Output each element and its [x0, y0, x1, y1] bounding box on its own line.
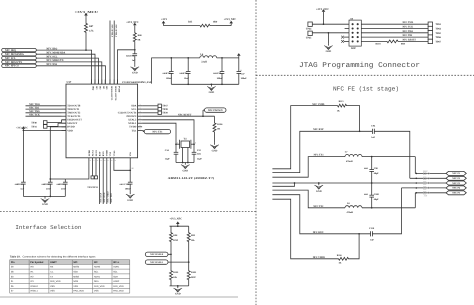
test point TP31 [43, 125, 47, 129]
ground GND (crystal) [184, 163, 186, 165]
capacitor C105 47nF [64, 179, 66, 182]
svg-text:SCL: SCL [113, 271, 118, 274]
wire +3V3 to R35 [164, 25, 195, 27]
svg-text:DVDD: DVDD [67, 126, 75, 129]
wire NFC TDI (JTAG right) [361, 36, 428, 38]
wire NFC TMS (JTAG right) [361, 23, 428, 25]
svg-text:TP28: TP28 [162, 108, 168, 111]
svg-text:NFC IFSEL0: NFC IFSEL0 [150, 253, 164, 256]
power +3V3_NFC (right) [230, 23, 232, 25]
wire L8 to TX2 connector [362, 207, 415, 209]
svg-text:NFC RXP: NFC RXP [313, 128, 324, 131]
svg-text:NFC NSS: NFC NSS [46, 63, 57, 66]
svg-text:VMID: VMID [106, 150, 109, 157]
ground GND (interface selection) [177, 286, 179, 288]
svg-text:ADR0: ADR0 [94, 266, 101, 269]
junction nodes on filter rail [170, 57, 172, 59]
wire NFC TDO (JTAG right) [361, 32, 428, 34]
svg-text:DNP: DNP [191, 276, 196, 279]
svg-text:TP63: TP63 [435, 23, 441, 26]
ground GND (JTAG) [327, 33, 329, 44]
wire NFC TX2 (FE) [272, 190, 345, 208]
wire RXN to connector [372, 188, 401, 234]
resistor R87 4.7k [85, 18, 88, 50]
wire TX1 [142, 130, 144, 131]
net label NFC P5 [446, 191, 466, 195]
svg-text:NFC TX2: NFC TX2 [110, 193, 113, 202]
svg-text:68pF: 68pF [374, 172, 380, 175]
antenna connector rows [402, 173, 448, 194]
wire RXP to connector [374, 131, 410, 178]
svg-text:n.c.: n.c. [50, 271, 54, 274]
ground GND (R106) [214, 143, 216, 145]
wire R115 to RXP node [347, 106, 360, 132]
svg-text:PAD_VDD: PAD_VDD [113, 290, 124, 293]
svg-text:NFC MISO/TX: NFC MISO/TX [5, 61, 22, 64]
svg-text:CLRC66302HN1,151: CLRC66302HN1,151 [122, 81, 152, 84]
svg-text:R116: R116 [337, 254, 343, 257]
svg-text:+3V3_NFC: +3V3_NFC [16, 127, 28, 130]
svg-text:1: 1 [177, 141, 178, 144]
svg-text:NFC TDI: NFC TDI [29, 106, 39, 109]
ground GND (decoupling) [44, 196, 46, 198]
inductor L8 470nH [345, 206, 362, 208]
capacitor C98 68pF [371, 157, 373, 170]
wire L7 to TX node [362, 156, 415, 158]
svg-text:ABM11-143-2T (2M08Z-T7): ABM11-143-2T (2M08Z-T7) [168, 176, 215, 180]
resistor R103 0R0 [385, 40, 400, 43]
test point TP29 [142, 112, 158, 114]
wire filter rail top left [171, 57, 200, 59]
svg-text:PAD_VDD: PAD_VDD [94, 285, 105, 288]
wire NFC TDO [26, 105, 62, 107]
svg-text:+3V3_NFC: +3V3_NFC [224, 18, 237, 21]
wire XTAL2 [142, 120, 194, 153]
svg-text:NFC SPI CS: NFC SPI CS [5, 65, 20, 68]
resistor R115 1K [337, 104, 347, 107]
net label NFC P1 [446, 171, 466, 175]
svg-text:XTAL1: XTAL1 [128, 122, 137, 125]
net label NFC SCL [2, 56, 37, 59]
svg-text:TP66: TP66 [435, 36, 441, 39]
wire R116 to RXN node [351, 234, 359, 259]
svg-text:Interface Selection: Interface Selection [15, 224, 81, 231]
resistor R106 0R [213, 116, 216, 142]
wire NFC IFSEL1 (labelled stub) [113, 21, 115, 85]
svg-text:100nF: 100nF [217, 77, 224, 80]
svg-text:NFC TCK: NFC TCK [29, 114, 40, 117]
svg-text:RX: RX [50, 266, 54, 269]
wire NFC RXN (to FE) [102, 163, 104, 204]
svg-text:47nF: 47nF [61, 188, 67, 191]
svg-text:RXN: RXN [102, 151, 105, 156]
svg-text:NFC P5: NFC P5 [452, 192, 461, 195]
svg-text:IFSEL0/OUT5: IFSEL0/OUT5 [110, 86, 113, 101]
IC U17 CLRC663 body [66, 84, 138, 158]
svg-text:I2C: I2C [94, 261, 98, 264]
svg-text:47nF: 47nF [46, 188, 52, 191]
svg-text:25: 25 [132, 167, 134, 170]
svg-text:NFC TDO: NFC TDO [403, 30, 414, 33]
capacitor C34 12pF [174, 151, 179, 153]
svg-text:3: 3 [140, 106, 141, 109]
svg-text:VSS: VSS [73, 285, 78, 288]
net label NFC TX1 [144, 129, 170, 133]
svg-text:NFC P2: NFC P2 [452, 177, 461, 180]
wire TVDD feed [152, 58, 172, 84]
no-connect marks J10 left pins [344, 36, 349, 38]
inductor L6 22uH [200, 56, 217, 58]
svg-text:6: 6 [140, 117, 141, 120]
svg-text:SDA: SDA [113, 275, 118, 278]
svg-text:TDI/OUT1: TDI/OUT1 [67, 108, 80, 111]
capacitor C130 1nF (RX series) [370, 231, 372, 236]
svg-text:+3V3_NFC: +3V3_NFC [170, 218, 183, 221]
svg-text:DNP: DNP [351, 47, 356, 50]
capacitor C97 100nF [221, 58, 223, 72]
svg-text:R102: R102 [191, 271, 197, 274]
svg-text:PAD_VDD: PAD_VDD [113, 285, 124, 288]
svg-text:NFC IFSEL0: NFC IFSEL0 [110, 25, 113, 38]
wire DVDD [50, 127, 66, 182]
resistor R102 DNP [187, 265, 190, 286]
svg-text:TP65: TP65 [435, 32, 441, 35]
wire NFC MISO/TX [36, 62, 102, 84]
inductor L7 470nH [345, 154, 362, 156]
svg-text:AVDD: AVDD [88, 150, 91, 157]
svg-text:NFC TX1: NFC TX1 [152, 130, 163, 133]
svg-text:VSS: VSS [129, 151, 132, 156]
svg-text:UART: UART [50, 261, 57, 264]
svg-text:TVSS: TVSS [113, 150, 116, 156]
resistor R99 10k [187, 226, 190, 248]
svg-text:68pF: 68pF [374, 198, 380, 201]
svg-text:9: 9 [140, 128, 141, 131]
svg-text:100nF: 100nF [125, 188, 132, 191]
svg-text:1K: 1K [337, 109, 340, 112]
svg-text:1nF: 1nF [371, 136, 375, 139]
net label NFC MISO/TX [2, 60, 37, 63]
net label NFC P2 [446, 176, 466, 180]
svg-text:NFC PDOWN: NFC PDOWN [208, 109, 223, 112]
svg-text:+3V3: +3V3 [161, 18, 168, 21]
svg-text:SPI: SPI [73, 261, 77, 264]
svg-text:PVDD: PVDD [118, 86, 121, 93]
DNP antenna connector J19 (gray) [423, 172, 429, 194]
svg-text:GND: GND [182, 169, 188, 172]
svg-text:100uF: 100uF [241, 77, 248, 80]
svg-text:VSS: VSS [50, 290, 55, 293]
wire NFC MOSI/SDA [36, 54, 95, 84]
ground GND (FE) [318, 183, 320, 185]
svg-text:12pF: 12pF [165, 157, 171, 160]
svg-text:TP67: TP67 [435, 40, 441, 43]
resistor R98 DNP [170, 226, 173, 248]
svg-text:8: 8 [140, 124, 141, 127]
capacitor C106 100nF [128, 181, 133, 183]
wire TVSS to VSS [114, 163, 130, 170]
wire TP44 to J10 pin1 [312, 23, 349, 25]
capacitor C47 100uF polarized [238, 58, 240, 72]
svg-text:JTAG Programming Connector: JTAG Programming Connector [299, 61, 420, 70]
wire NFC TCK [26, 115, 62, 117]
test point TP28 [142, 108, 158, 110]
wire NFC NSS [36, 66, 105, 84]
svg-text:C100: C100 [374, 193, 380, 196]
svg-text:NFC MOSI/SDA: NFC MOSI/SDA [5, 53, 24, 56]
svg-text:470nH: 470nH [347, 211, 354, 214]
svg-text:7: 7 [140, 121, 141, 124]
svg-text:IFSEL0: IFSEL0 [30, 285, 38, 288]
svg-text:U17: U17 [67, 81, 72, 84]
svg-text:GND: GND [42, 203, 48, 206]
wire ifsel top rail [170, 225, 189, 227]
svg-text:3: 3 [195, 141, 196, 144]
svg-text:VSS: VSS [94, 290, 99, 293]
wire PVDD link from C96 node [118, 50, 135, 84]
svg-text:GND: GND [209, 91, 215, 94]
wire NFC RXP (to FE) [99, 163, 101, 204]
resistor R116 1K [336, 257, 351, 260]
svg-text:NFC VMID: NFC VMID [313, 256, 325, 259]
svg-text:SIGOUT: SIGOUT [67, 122, 77, 125]
svg-text:NFC TCK: NFC TCK [403, 26, 414, 29]
svg-text:22uH: 22uH [201, 61, 207, 64]
svg-text:R103: R103 [376, 43, 382, 46]
resistor R35 0R0 [194, 24, 216, 27]
ground GND (filter) [210, 84, 212, 86]
svg-text:NFC MISO/TX: NFC MISO/TX [46, 59, 63, 62]
net label NFC PDOWN [202, 110, 204, 116]
ground GND (VSS) [129, 192, 131, 194]
svg-text:MISO: MISO [73, 275, 79, 278]
svg-text:5: 5 [140, 114, 141, 117]
wire crystal ground rail [176, 162, 194, 164]
resistor R88 0R [133, 28, 136, 48]
svg-text:GND: GND [127, 199, 133, 202]
wire filter bottom rail [171, 83, 239, 85]
svg-text:NFC RESET: NFC RESET [178, 113, 192, 116]
svg-text:+3V3_MCU: +3V3_MCU [75, 10, 100, 14]
svg-text:1uF: 1uF [20, 188, 24, 191]
IC U17 right pins [118, 103, 142, 132]
svg-text:C104: C104 [44, 183, 50, 186]
test point TP33 [95, 176, 98, 179]
svg-text:TP31: TP31 [31, 126, 37, 129]
svg-text:TCK/OUT3: TCK/OUT3 [67, 115, 81, 118]
svg-text:IRQ: IRQ [92, 86, 95, 91]
wire TX1 to connector [414, 157, 416, 174]
svg-text:R115: R115 [339, 100, 345, 103]
power TVDD arrow [238, 56, 240, 58]
svg-text:0402: 0402 [364, 167, 368, 170]
svg-text:VDD: VDD [67, 129, 73, 132]
svg-text:NFC SCL: NFC SCL [5, 57, 16, 60]
svg-text:PDOWN: PDOWN [127, 115, 137, 118]
svg-text:2: 2 [140, 103, 141, 106]
wire NFC IFSEL0 (labelled stub) [109, 21, 111, 85]
svg-text:PAD_VDD: PAD_VDD [73, 290, 84, 293]
svg-text:GND: GND [212, 149, 218, 152]
junction node PVDD [134, 49, 136, 51]
svg-text:AUX1: AUX1 [91, 149, 94, 156]
net label NFC SPI CS [2, 64, 37, 67]
svg-text:NFC TX1: NFC TX1 [314, 154, 325, 157]
wire R35 to +3V3_NFC [216, 25, 231, 27]
test point TP17 [142, 105, 158, 107]
svg-text:NFC VMID: NFC VMID [312, 103, 324, 106]
svg-text:GND: GND [316, 190, 322, 193]
svg-text:0402: 0402 [364, 193, 368, 196]
svg-text:SCL: SCL [94, 271, 99, 274]
wire NFC TDI [26, 108, 62, 110]
interface table [10, 260, 130, 265]
wire decoupling ground rail [23, 195, 65, 197]
test point TP32 [91, 176, 94, 179]
svg-text:NFC RXN: NFC RXN [103, 192, 106, 202]
svg-text:RXP: RXP [99, 151, 102, 156]
svg-text:TP45: TP45 [306, 36, 312, 39]
net label NFC P3 [446, 181, 466, 185]
svg-text:Connection scheme for detectin: Connection scheme for detecting the diff… [23, 256, 97, 259]
svg-text:SDA: SDA [94, 280, 99, 283]
svg-text:TP64: TP64 [435, 28, 441, 31]
test point TP30 [43, 121, 47, 125]
capacitor C103 1uF [22, 130, 24, 182]
svg-text:TP29: TP29 [162, 112, 168, 115]
svg-text:0402: 0402 [120, 183, 124, 186]
svg-text:0402: 0402 [197, 153, 201, 156]
net label NFC IFSEL0 [145, 252, 168, 256]
page bottom gray line [0, 296, 238, 298]
svg-text:IFSEL1: IFSEL1 [30, 290, 38, 293]
svg-text:ADR1: ADR1 [94, 275, 101, 278]
net label NFC P4 [446, 186, 466, 190]
wire NFC RESET (PDOWN) [142, 115, 214, 117]
svg-text:C106: C106 [124, 183, 130, 186]
svg-text:MOSI: MOSI [73, 266, 79, 269]
test point TP45 [308, 31, 312, 35]
svg-text:SCK: SCK [73, 271, 78, 274]
svg-text:GND: GND [326, 50, 332, 53]
wire VDD [23, 129, 66, 131]
svg-text:VSS: VSS [50, 285, 55, 288]
capacitor C96 1uF [133, 53, 138, 55]
wire R88 to C96 [134, 47, 136, 54]
svg-text:R106: R106 [217, 123, 223, 126]
net label NFC IRQ [2, 48, 37, 51]
capacitor C94b 1nF (RX series) [371, 129, 373, 134]
svg-text:DNP: DNP [423, 170, 428, 173]
wire NFC TX1 (FE) [272, 157, 345, 178]
wire NFC RXN (FE) [272, 195, 370, 234]
svg-text:PAD_VDD: PAD_VDD [50, 280, 61, 283]
svg-text:0R: 0R [138, 39, 141, 42]
capacitor C35 12pF [192, 151, 197, 153]
svg-text:ADR1: ADR1 [113, 266, 120, 269]
svg-text:NFC IRQ: NFC IRQ [46, 47, 57, 50]
J10 pin stubs left [345, 28, 349, 30]
svg-text:Pin: Pin [11, 261, 15, 264]
svg-text:NFC IFSEL1: NFC IFSEL1 [115, 25, 118, 37]
wire NFC VMID (to FE) [106, 163, 108, 204]
svg-text:NFC FE (1st stage): NFC FE (1st stage) [333, 85, 399, 92]
test point TP44 [308, 22, 312, 26]
wire NFC SCL [36, 58, 98, 84]
IC U17 top pins [91, 80, 121, 102]
svg-text:NFC SCL: NFC SCL [46, 55, 57, 58]
svg-text:TVDD: TVDD [129, 126, 136, 129]
svg-text:IFSEL1/OUT6: IFSEL1/OUT6 [114, 86, 117, 101]
svg-text:NFC RXN: NFC RXN [313, 231, 324, 234]
svg-text:1K: 1K [339, 262, 342, 265]
wire ground stub (FE left) [272, 183, 294, 186]
svg-text:NFC TX2: NFC TX2 [313, 205, 324, 208]
svg-text:ADR2: ADR2 [113, 280, 120, 283]
svg-text:NFC RESET: NFC RESET [403, 38, 417, 41]
svg-text:NFC P4: NFC P4 [452, 187, 461, 190]
wire ifsel bottom rail [170, 285, 189, 287]
svg-text:C105: C105 [59, 183, 65, 186]
svg-text:GND: GND [132, 71, 138, 74]
svg-text:C130: C130 [369, 227, 375, 230]
svg-text:NFC P1: NFC P1 [452, 172, 461, 175]
wire filter rail top right [217, 57, 239, 59]
wire VSS [129, 163, 131, 182]
svg-text:DNP: DNP [173, 239, 178, 242]
svg-text:TP30: TP30 [31, 122, 37, 125]
svg-text:TP44: TP44 [306, 27, 312, 30]
wire ifsel columns [170, 248, 172, 265]
svg-text:R101: R101 [173, 271, 179, 274]
wire AVDD rail [65, 163, 89, 179]
svg-text:Table 19.: Table 19. [10, 256, 21, 259]
svg-text:TX: TX [50, 275, 53, 278]
capacitor C104 47nF [48, 181, 53, 183]
svg-text:Pin Symbol: Pin Symbol [30, 261, 43, 264]
svg-text:4.7k: 4.7k [89, 29, 94, 32]
wire NFC TX2 (to FE) [109, 163, 111, 204]
svg-text:NFC IRQ: NFC IRQ [5, 49, 16, 52]
wire FE ground rail [272, 182, 447, 184]
junction node NFC IRQ / pull-up [85, 49, 87, 51]
crystal ground stubs [182, 148, 184, 163]
svg-text:NSS: NSS [73, 280, 78, 283]
wire NFC RXP [272, 131, 372, 172]
svg-text:NFC VMID: NFC VMID [107, 191, 110, 202]
wire XTAL1 [142, 123, 176, 152]
svg-text:NFC P3: NFC P3 [452, 182, 461, 185]
wire TP45 to J10 pin5 [312, 32, 349, 34]
svg-text:C103: C103 [17, 183, 23, 186]
wire NFC RESET (JTAG right) [361, 40, 385, 42]
wire NFC TCK (JTAG right) [361, 28, 428, 30]
section divider horizontal dashed line left (above Interface Selection) [0, 211, 256, 213]
svg-text:12pF: 12pF [197, 157, 203, 160]
svg-text:NFC TMS: NFC TMS [403, 21, 414, 24]
svg-text:TP32TP33: TP32TP33 [87, 186, 98, 189]
IC U17 bottom pins [88, 149, 132, 163]
svg-text:NFC TDI: NFC TDI [403, 34, 413, 37]
capacitor C90 100uF [170, 58, 172, 72]
junction node PDOWN [202, 115, 204, 117]
svg-text:TX1: TX1 [131, 129, 137, 132]
svg-text:1nF: 1nF [370, 238, 374, 241]
svg-text:1uF: 1uF [132, 59, 136, 62]
wire NFC VMID (bottom) [272, 199, 336, 259]
section divider vertical dashed line [255, 0, 257, 305]
svg-text:+3V3_NFC: +3V3_NFC [126, 21, 139, 24]
